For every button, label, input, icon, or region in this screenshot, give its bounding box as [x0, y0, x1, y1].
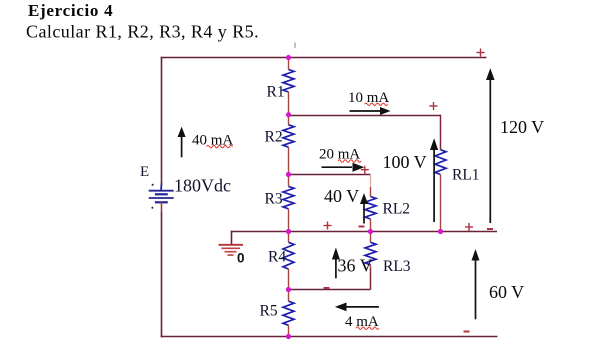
wire RL3 bottom lead vertical	[370, 268, 372, 290]
svg-text:Ejercicio 4: Ejercicio 4	[28, 1, 113, 20]
voltage arrow 120 V (up, right side)	[486, 68, 495, 223]
polarity - on rail right end	[487, 228, 493, 230]
polarity - on R4-RL3 wire	[324, 287, 330, 289]
svg-text:36 V: 36 V	[338, 256, 373, 276]
junction node R2-R3	[286, 172, 291, 177]
wire R4 to RL3 bottom horizontal	[289, 289, 371, 291]
svg-text:R3: R3	[265, 191, 283, 208]
resistor RL2	[365, 197, 376, 232]
ground symbol (node 0)	[219, 245, 244, 255]
polarity + top right	[477, 49, 485, 57]
junction node R1-R2	[286, 112, 291, 117]
svg-text:RL2: RL2	[383, 201, 411, 218]
wire 10mA branch vertical to RL1	[440, 115, 442, 150]
svg-text:120 V: 120 V	[500, 117, 544, 137]
current arrow 10 mA (right)	[350, 107, 391, 115]
svg-text:R4: R4	[268, 249, 286, 266]
junction node R5 bottom	[286, 334, 291, 339]
svg-text:0: 0	[237, 251, 245, 266]
svg-text:R2: R2	[265, 129, 283, 146]
polarity + at 10mA corner	[430, 102, 438, 110]
battery E (180Vdc source)	[149, 184, 174, 213]
current arrow 4 mA (left)	[335, 303, 379, 312]
wire ground stem	[231, 231, 233, 245]
svg-text:R1: R1	[267, 84, 285, 101]
svg-text:60 V: 60 V	[489, 282, 524, 302]
polarity + at 20mA end	[361, 166, 369, 174]
resistor RL3	[365, 232, 376, 268]
spellcheck squiggle under 20 mA	[338, 160, 361, 162]
current arrow 20 mA (right)	[322, 163, 365, 172]
current arrow 40 mA (up)	[178, 127, 186, 158]
junction node R3-R4 (rail 0)	[286, 229, 291, 234]
junction node RL1 bottom on rail	[438, 229, 443, 234]
wire top horizontal	[161, 57, 487, 59]
junction node top (R1 top)	[286, 55, 291, 60]
voltage arrow 60 V (up, bottom right)	[472, 249, 480, 319]
svg-text:180Vdc: 180Vdc	[174, 176, 231, 196]
wire left vertical upper (E positive lead)	[161, 57, 163, 185]
svg-text:Calcular R1, R2, R3, R4 y R5.: Calcular R1, R2, R3, R4 y R5.	[26, 22, 259, 42]
resistor R4	[283, 232, 294, 290]
voltage arrow 40 V (up, at RL2)	[360, 193, 368, 224]
svg-text:100 V: 100 V	[383, 152, 427, 172]
wire 20mA branch horizontal	[289, 174, 371, 176]
voltage arrow 36 V (up, at RL3)	[332, 248, 340, 279]
wire bottom horizontal	[161, 336, 498, 338]
stray tick mark top	[294, 43, 296, 49]
junction node RL2-RL3 on rail	[368, 229, 373, 234]
polarity - on rail at RL2	[359, 226, 365, 228]
svg-text:E: E	[140, 164, 149, 180]
wire left vertical lower (E negative lead)	[161, 212, 163, 338]
resistor R1	[283, 58, 294, 115]
svg-text:RL3: RL3	[383, 258, 411, 275]
wire 10mA branch horizontal	[289, 115, 441, 117]
svg-text:RL1: RL1	[452, 167, 480, 184]
wire 20mA branch vertical to RL2	[370, 175, 372, 188]
polarity - on bottom wire right	[464, 331, 470, 333]
junction node R4-R5	[286, 287, 291, 292]
polarity + on rail left	[324, 222, 332, 230]
resistor R3	[283, 175, 294, 232]
resistor RL1	[435, 150, 446, 232]
spellcheck squiggle under 4 mA	[356, 327, 379, 329]
spellcheck squiggle under 40 mA	[207, 145, 233, 147]
polarity + on rail right	[465, 223, 473, 231]
svg-text:40 V: 40 V	[324, 186, 359, 206]
wire middle horizontal (node 0 rail)	[231, 231, 497, 233]
resistor R2	[283, 115, 294, 175]
svg-text:R5: R5	[260, 303, 278, 320]
spellcheck squiggle under 10 mA	[365, 103, 388, 105]
voltage arrow 100 V (up, at RL1)	[430, 138, 438, 222]
resistor R5	[283, 290, 294, 337]
